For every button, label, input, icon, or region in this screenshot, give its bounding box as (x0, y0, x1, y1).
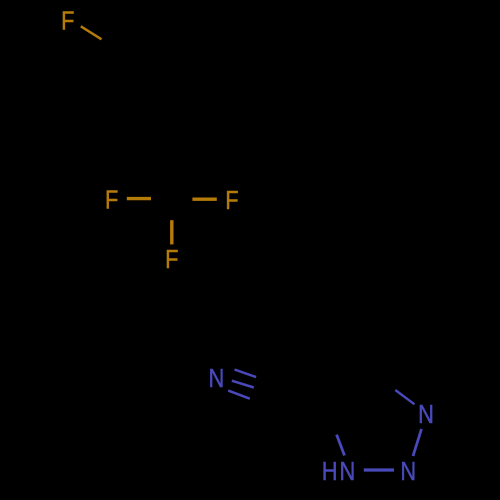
svg-text:H: H (322, 457, 338, 486)
svg-text:F: F (105, 186, 118, 215)
svg-text:N: N (418, 400, 434, 429)
svg-text:F: F (225, 186, 238, 215)
svg-text:N: N (400, 457, 416, 486)
svg-text:F: F (165, 245, 178, 274)
svg-text:N: N (209, 364, 225, 393)
svg-text:F: F (61, 7, 74, 36)
svg-text:N: N (340, 457, 356, 486)
